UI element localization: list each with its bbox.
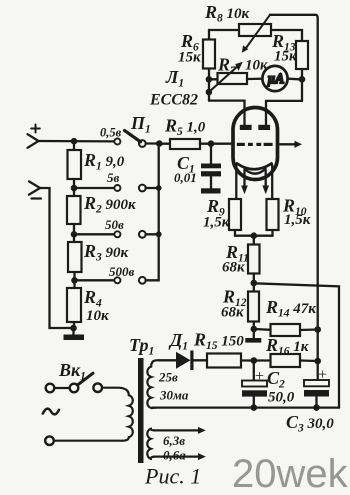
svg-text:15к: 15к <box>274 49 297 65</box>
node junction R12 bottom <box>251 326 258 333</box>
node junction R4 bottom <box>70 325 77 332</box>
AC source terminal 2 <box>45 436 54 445</box>
node junction R11-R12 <box>251 280 258 287</box>
wire R8 to R13 top <box>271 30 302 41</box>
wire cathode lead right <box>271 165 273 199</box>
meter uA <box>262 66 287 91</box>
ground R12 <box>245 329 261 343</box>
node junction R7 wiper <box>206 89 213 96</box>
node junction bus 50v row <box>156 231 162 237</box>
svg-text:µА: µА <box>268 71 285 86</box>
switch P1 contact 5v <box>114 185 120 191</box>
resistor R7 variable <box>209 62 247 92</box>
resistor R15 <box>207 354 241 368</box>
wire R15 to R16 <box>241 359 254 361</box>
transformer Tr1 core <box>138 358 144 463</box>
AC symbol <box>43 409 59 415</box>
switch P1 contact 0.5v <box>114 139 120 145</box>
resistor R14 <box>254 324 318 336</box>
transformer secondary winding 1 <box>147 360 158 408</box>
wire tap 500v <box>75 279 115 281</box>
svg-text:15к: 15к <box>178 50 201 66</box>
resistor R2 <box>67 188 81 234</box>
wire bridge top left <box>209 30 239 40</box>
switch Vk1 contact 2 <box>93 383 102 392</box>
svg-text:0,6а: 0,6а <box>163 448 186 463</box>
svg-text:R3 90к: R3 90к <box>83 241 129 264</box>
svg-text:R2 900к: R2 900к <box>83 193 136 216</box>
svg-text:68к: 68к <box>222 260 245 276</box>
resistor R16 <box>254 354 318 367</box>
wire cathode lead left <box>235 165 237 199</box>
node junction R1 top <box>71 138 78 145</box>
wire R11-R12 node to right bus <box>254 283 339 407</box>
wire grid right with arrow <box>278 141 302 148</box>
transformer primary winding <box>54 388 132 441</box>
svg-text:68к: 68к <box>221 305 244 321</box>
wire anode rail left <box>209 99 245 101</box>
switch P1 pole contact 1 <box>139 140 146 147</box>
svg-text:5в: 5в <box>107 170 120 185</box>
tube heater arc <box>245 169 266 174</box>
wire Vk1 <box>54 387 69 389</box>
node junction cathode join <box>251 232 258 239</box>
capacitor C2 <box>242 361 267 408</box>
svg-text:+: + <box>255 368 264 385</box>
svg-text:0,01: 0,01 <box>174 170 197 185</box>
node junction R14 bus <box>314 326 321 333</box>
tube anode plate left <box>240 125 252 130</box>
svg-text:R8 10к: R8 10к <box>204 2 250 25</box>
node junction bus top <box>156 140 163 147</box>
switch P1 pole contact 4 <box>139 277 146 284</box>
svg-text:+: + <box>318 367 327 384</box>
wire anode rail right <box>266 100 302 102</box>
wire R8 wiper to supply bus <box>270 15 318 380</box>
wire heater bottom with arrow <box>154 453 206 460</box>
svg-text:20wek: 20wek <box>232 452 349 495</box>
wire bus to R5 <box>159 143 170 145</box>
wire meter to R13 bottom <box>288 78 300 81</box>
node junction meter R13 <box>299 76 306 83</box>
wire + terminal to R1 top <box>39 140 115 143</box>
node junction C3 bottom <box>313 404 320 411</box>
switch P1 pole contact 3 <box>139 231 146 238</box>
wire minus terminal down to ground rail <box>40 188 74 328</box>
svg-text:30ма: 30ма <box>159 388 189 403</box>
svg-text:1,5к: 1,5к <box>284 212 311 228</box>
svg-text:1,5к: 1,5к <box>203 215 230 231</box>
svg-text:R5 1,0: R5 1,0 <box>164 116 206 139</box>
switch P1 contact 50v <box>114 231 120 237</box>
node junction R7 left <box>206 76 213 83</box>
resistor R5 <box>170 139 200 149</box>
wire tap 5v <box>74 187 114 189</box>
resistor R9 <box>229 199 241 236</box>
svg-text:6,3в: 6,3в <box>163 433 185 448</box>
resistor R4 <box>67 280 81 328</box>
resistor R13 <box>296 41 308 79</box>
wire R7 to meter <box>247 78 263 81</box>
tube grid dashes <box>237 143 273 146</box>
svg-text:Рис. 1: Рис. 1 <box>144 464 201 489</box>
wire R5 to grid <box>200 143 234 145</box>
wire heater lead right with arrow <box>262 170 269 194</box>
node junction C2 top <box>251 357 258 364</box>
switch P1 pole contact 2 <box>139 185 146 192</box>
plus input terminal <box>28 125 40 148</box>
wire bottom rail <box>153 406 340 408</box>
wire heater top with arrow <box>154 427 206 434</box>
tube cathode arc <box>237 164 272 170</box>
svg-text:0,5в: 0,5в <box>100 126 122 140</box>
resistor R10 <box>267 199 279 236</box>
resistor R1 <box>68 141 82 188</box>
wire tap 50v <box>74 233 114 235</box>
switch Vk1 arm <box>78 373 94 385</box>
svg-text:500в: 500в <box>109 264 135 279</box>
transformer secondary winding 2 heater <box>147 429 154 459</box>
wire pole bus <box>146 144 160 281</box>
node junction R1-R2 <box>71 185 78 192</box>
svg-text:R14 47к: R14 47к <box>265 297 316 320</box>
wire anode lead left <box>243 101 245 125</box>
wire heater lead left with arrow <box>241 170 248 194</box>
svg-text:ECC82: ECC82 <box>149 92 198 109</box>
node junction C1 tap <box>208 140 215 147</box>
switch P1 wiper arm <box>125 131 141 142</box>
svg-text:25в: 25в <box>158 370 178 385</box>
node junction R16 bus <box>314 358 321 365</box>
svg-text:C3 30,0: C3 30,0 <box>286 412 334 435</box>
diode D1 <box>159 351 208 371</box>
switch P1 contact 500v <box>114 277 120 283</box>
resistor R12 <box>248 283 259 329</box>
wire anode lead right <box>265 101 267 125</box>
tube anode plate right <box>258 125 270 130</box>
svg-text:10к: 10к <box>86 308 109 324</box>
ground C1 <box>201 188 221 193</box>
node junction C2 bottom <box>251 404 258 411</box>
capacitor C1 <box>201 144 221 189</box>
resistor R3 <box>68 234 82 280</box>
resistor R11 <box>248 236 260 283</box>
svg-text:50в: 50в <box>105 217 124 232</box>
svg-text:R15 150: R15 150 <box>193 330 244 353</box>
svg-text:10к: 10к <box>245 58 268 74</box>
node junction R2-R3 <box>71 231 78 238</box>
wire cathode join <box>235 235 273 237</box>
resistor R8 variable <box>239 15 271 53</box>
wire bridge right corner down <box>301 79 303 101</box>
switch Vk1 terminal 1 <box>46 384 55 393</box>
node junction bus 5v row <box>156 185 162 191</box>
minus input terminal <box>29 181 41 198</box>
tube U1 envelope <box>233 108 278 180</box>
resistor R6 <box>203 40 215 101</box>
svg-text:50,0: 50,0 <box>268 390 295 406</box>
switch Vk1 contact <box>70 384 79 393</box>
capacitor C3 <box>304 380 329 408</box>
ground divider <box>64 328 85 340</box>
node junction R3-R4 <box>71 277 78 284</box>
